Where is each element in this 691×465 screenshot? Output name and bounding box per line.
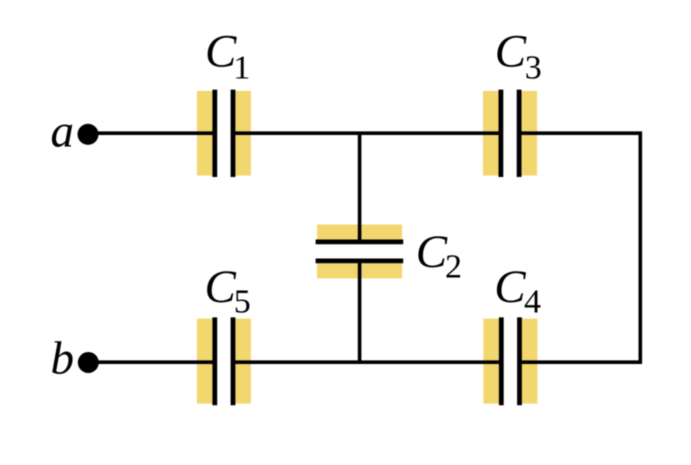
svg-text:b: b (51, 332, 75, 384)
svg-text:C: C (495, 26, 527, 78)
label C3 (495, 26, 542, 87)
svg-text:2: 2 (445, 249, 462, 286)
svg-text:5: 5 (234, 284, 251, 321)
svg-text:1: 1 (233, 50, 250, 87)
svg-text:3: 3 (525, 50, 542, 87)
capacitor C4 (483, 317, 537, 405)
terminal b (node b) (78, 352, 99, 373)
terminal a (node a) (78, 124, 99, 145)
capacitor C2 (316, 225, 404, 279)
wire C1 to C3 (through middle node) (233, 131, 501, 135)
svg-text:C: C (416, 226, 448, 278)
svg-text:C: C (205, 261, 237, 313)
wire C5 to C4 (through middle node) (233, 360, 502, 364)
label C5 (205, 261, 251, 321)
label C1 (205, 26, 250, 87)
svg-text:C: C (205, 26, 237, 78)
wire a to C1 (88, 131, 215, 135)
wire top node down to C2 (358, 133, 362, 242)
capacitor C5 (197, 317, 251, 405)
capacitor C1 (197, 90, 251, 177)
wire b to C5 (88, 360, 215, 364)
svg-text:4: 4 (524, 284, 541, 321)
svg-text:a: a (51, 105, 75, 157)
label C4 (494, 261, 541, 321)
capacitor C3 (483, 90, 537, 177)
label C2 (416, 226, 462, 286)
wire C2 down to bottom node (358, 261, 362, 362)
wire C3 to right edge and down to bottom wire (519, 133, 640, 362)
svg-text:C: C (494, 261, 526, 313)
